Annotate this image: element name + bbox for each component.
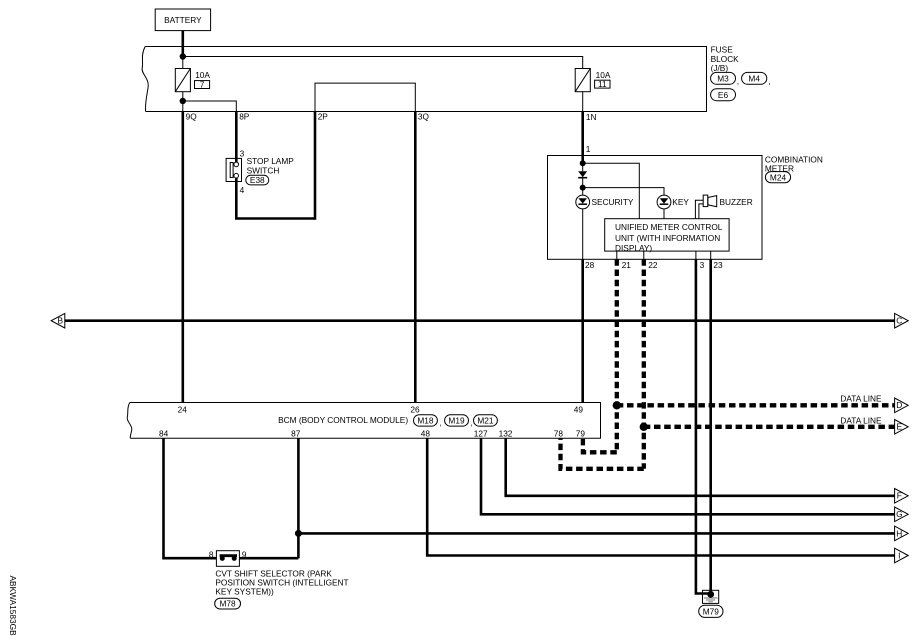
svg-text:132: 132: [499, 428, 513, 438]
wire unified meter control unit to pin 21: [616, 251, 618, 259]
connector M79: [699, 605, 723, 617]
wire junction to fuse 11: [183, 57, 583, 69]
svg-text:1N: 1N: [586, 112, 597, 122]
arrow H: [895, 526, 909, 541]
wire 2P to 3Q bus inside fuse block: [315, 83, 415, 111]
svg-text:E6: E6: [718, 90, 729, 100]
svg-text:79: 79: [576, 428, 586, 438]
node battery junction: [180, 53, 186, 59]
wire meter pin 3 to ground M79: [696, 259, 711, 593]
wire BCM pin 84 to CVT shift selector pin 8: [164, 438, 217, 558]
svg-text:78: 78: [554, 428, 564, 438]
arrow C: [895, 313, 909, 328]
connector E6: [711, 89, 736, 101]
svg-text:B: B: [58, 316, 64, 326]
wire junction to unified meter control unit: [583, 163, 640, 218]
connector M78: [215, 598, 241, 609]
svg-text:M18: M18: [417, 416, 434, 426]
wire fuse 7 to node: [182, 92, 184, 101]
wire battery to fuse block: [182, 31, 185, 58]
BCM (body control module) box: [127, 403, 600, 439]
arrow I: [895, 548, 909, 563]
svg-text:UNIT (WITH INFORMATION: UNIT (WITH INFORMATION: [615, 233, 720, 243]
CVT shift selector switch: [216, 551, 239, 567]
svg-text:UNIFIED METER CONTROL: UNIFIED METER CONTROL: [615, 222, 723, 232]
svg-text:M4: M4: [748, 73, 760, 83]
svg-text:M21: M21: [477, 416, 494, 426]
svg-text:F: F: [897, 491, 902, 501]
node fuse 7 output: [180, 98, 186, 104]
fuse block label: [711, 45, 740, 73]
svg-text:H: H: [896, 528, 902, 538]
svg-text:BCM (BODY CONTROL MODULE): BCM (BODY CONTROL MODULE): [278, 415, 408, 425]
wire unified meter control unit to pin 22: [643, 251, 645, 259]
svg-text:9: 9: [242, 549, 247, 559]
svg-text:M19: M19: [448, 416, 465, 426]
svg-text:8P: 8P: [239, 112, 250, 122]
svg-text:7: 7: [200, 79, 205, 89]
svg-text:3: 3: [240, 148, 245, 158]
node meter input junction: [580, 160, 586, 166]
svg-text:E38: E38: [250, 175, 265, 185]
wire key lamp to unified meter control unit: [663, 209, 665, 219]
wire 9Q to BCM pin 24: [182, 112, 185, 403]
combination meter box: [548, 156, 763, 260]
connector M24: [765, 172, 790, 183]
arrow D: [895, 398, 909, 413]
connector M18: [414, 415, 442, 428]
svg-text:M78: M78: [220, 599, 237, 609]
key indicator lamp: [657, 195, 689, 209]
svg-text:3Q: 3Q: [418, 112, 430, 122]
svg-text:11: 11: [598, 79, 607, 89]
wire 1N to combination meter pin 1: [581, 112, 584, 165]
node data line E junction: [640, 423, 648, 431]
svg-text:,: ,: [768, 76, 770, 86]
svg-text:E: E: [897, 422, 903, 432]
svg-text:M24: M24: [770, 172, 787, 182]
CVT shift selector label: [215, 568, 348, 596]
node H branch junction: [295, 530, 302, 537]
node key branch junction: [580, 185, 586, 191]
wire BCM pin 48 to arrow I: [427, 438, 894, 555]
wire CAN loop to BCM pin 79: [583, 438, 617, 452]
fuse 11 10A: [575, 69, 611, 92]
wire meter pin 23 to ground M79: [709, 259, 712, 594]
arrow G: [895, 507, 909, 522]
wire CAN pin 22: [642, 259, 646, 469]
svg-text:84: 84: [159, 428, 169, 438]
fuse 7 10A: [175, 69, 210, 92]
wire node to pin 8P: [183, 101, 237, 112]
node data line D junction: [613, 401, 621, 409]
svg-text:M3: M3: [717, 73, 729, 83]
svg-text:M79: M79: [703, 606, 720, 616]
svg-text:BATTERY: BATTERY: [164, 15, 202, 25]
svg-text:8: 8: [209, 549, 214, 559]
wire buzzer terminal 2: [699, 204, 703, 219]
svg-text:26: 26: [410, 404, 420, 414]
security indicator lamp: [576, 188, 634, 209]
wire 2P down: [314, 112, 317, 220]
wire fuse 11 to pin 1N: [582, 92, 584, 112]
svg-text:23: 23: [713, 260, 723, 270]
wire 8P to stop lamp switch pin 3: [235, 112, 238, 163]
stop lamp switch E38: [226, 158, 241, 181]
connector E38: [246, 175, 269, 185]
svg-text:49: 49: [574, 404, 584, 414]
svg-text:DISPLAY): DISPLAY): [615, 243, 652, 253]
svg-text:,: ,: [440, 418, 442, 428]
connector M19: [445, 415, 473, 428]
connector M21: [474, 415, 498, 426]
connector M3: [711, 72, 740, 86]
ground M79 box: [703, 590, 719, 603]
wire CVT shift selector pin 9: [239, 557, 298, 560]
svg-text:87: 87: [291, 428, 301, 438]
svg-text:22: 22: [648, 260, 658, 270]
svg-text:48: 48: [421, 428, 431, 438]
svg-text:28: 28: [585, 260, 595, 270]
wire unified meter control unit to pin 23: [710, 251, 712, 259]
svg-text:127: 127: [474, 428, 488, 438]
wire junction to key lamp: [583, 188, 664, 196]
wire security lamp to pin 28: [582, 209, 584, 259]
unified meter control unit U1: [605, 219, 729, 253]
svg-text:KEY SYSTEM)): KEY SYSTEM)): [215, 587, 274, 597]
svg-text:(J/B): (J/B): [711, 63, 729, 73]
svg-text:21: 21: [622, 260, 632, 270]
wire to arrow H: [298, 532, 894, 535]
wire CAN pin 21: [615, 259, 619, 452]
svg-text:SWITCH: SWITCH: [247, 165, 280, 175]
buzzer: [703, 195, 753, 207]
wire BCM pin 127 to arrow G: [481, 438, 895, 514]
svg-text:1: 1: [586, 144, 591, 154]
wire BCM pin 132 to arrow F: [506, 438, 895, 496]
wire junction to fuse 7: [182, 57, 184, 69]
svg-text:24: 24: [178, 404, 188, 414]
svg-text:4: 4: [240, 185, 245, 195]
wire unified meter control unit to pin 3: [695, 251, 697, 259]
node ground junction: [707, 591, 714, 598]
svg-text:3: 3: [700, 260, 705, 270]
svg-text:BUZZER: BUZZER: [720, 197, 753, 207]
wire meter pin 28 to BCM pin 49: [581, 259, 584, 402]
svg-text:ABKWA1583GB: ABKWA1583GB: [8, 576, 18, 637]
arrow E: [895, 420, 909, 435]
wire stop lamp switch pin 4 to 2P: [236, 178, 315, 219]
wire 3Q to BCM pin 26: [414, 112, 417, 403]
arrow F: [895, 489, 909, 504]
svg-text:G: G: [896, 509, 902, 519]
svg-text:SECURITY: SECURITY: [592, 197, 634, 207]
wire BCM pin 87 to CVT shift selector pin 9: [297, 438, 300, 558]
wire node to pin 9Q: [182, 101, 184, 112]
stop lamp switch label: [247, 156, 295, 175]
wire data line D: [617, 403, 895, 407]
svg-text:,: ,: [471, 418, 473, 428]
combination meter label: [765, 154, 823, 173]
svg-text:,: ,: [737, 76, 739, 86]
wire CAN loop to BCM pin 78: [561, 438, 644, 469]
battery B1: [155, 9, 210, 31]
wire data line E: [644, 425, 895, 429]
svg-text:I: I: [898, 550, 900, 560]
connector M4: [742, 72, 771, 86]
svg-text:D: D: [896, 400, 902, 410]
svg-text:C: C: [896, 316, 902, 326]
fuse block (J/B) outline: [142, 47, 706, 112]
wire B to C: [65, 319, 895, 322]
svg-text:9Q: 9Q: [186, 112, 198, 122]
svg-text:2P: 2P: [318, 112, 329, 122]
svg-text:DATA LINE: DATA LINE: [840, 394, 882, 404]
diode D1: [578, 163, 587, 187]
svg-text:DATA LINE: DATA LINE: [840, 415, 882, 425]
svg-text:KEY: KEY: [672, 197, 689, 207]
wire buzzer terminal 1: [695, 200, 703, 218]
arrow B: [51, 313, 65, 328]
